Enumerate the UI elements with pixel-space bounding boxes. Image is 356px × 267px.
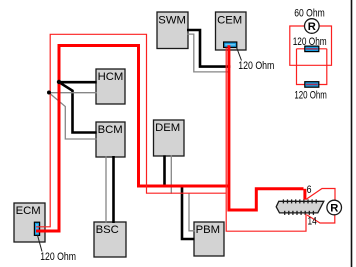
svg-text:BSC: BSC bbox=[96, 224, 119, 236]
svg-text:DEM: DEM bbox=[155, 122, 180, 134]
svg-text:120 Ohm: 120 Ohm bbox=[293, 36, 327, 48]
svg-text:120 Ohm: 120 Ohm bbox=[294, 89, 327, 101]
svg-text:HCM: HCM bbox=[98, 71, 124, 83]
svg-text:120 Ohm: 120 Ohm bbox=[238, 60, 274, 72]
svg-text:SWM: SWM bbox=[158, 14, 186, 26]
svg-text:14: 14 bbox=[308, 216, 317, 228]
svg-text:R: R bbox=[308, 21, 316, 33]
svg-text:120 Ohm: 120 Ohm bbox=[40, 251, 76, 263]
svg-text:CEM: CEM bbox=[217, 14, 242, 26]
svg-text:PBM: PBM bbox=[196, 224, 220, 236]
svg-text:BCM: BCM bbox=[98, 124, 123, 136]
svg-text:R: R bbox=[330, 203, 338, 215]
svg-text:60 Ohm: 60 Ohm bbox=[294, 8, 324, 20]
svg-text:ECM: ECM bbox=[16, 205, 41, 217]
svg-text:6: 6 bbox=[307, 184, 312, 196]
